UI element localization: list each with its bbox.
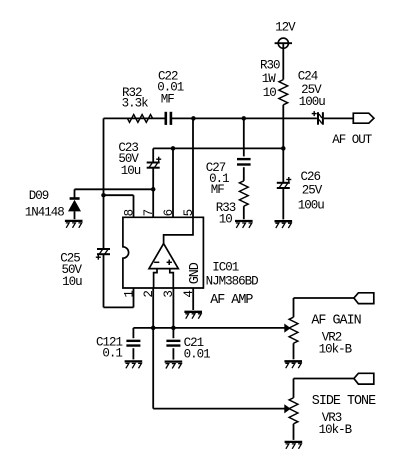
svg-text:100u: 100u [299,95,326,109]
svg-text:C26: C26 [301,170,321,184]
svg-text:SIDE TONE: SIDE TONE [312,394,376,409]
svg-text:MF: MF [211,183,225,197]
svg-text:6: 6 [162,209,176,216]
svg-text:25V: 25V [302,183,323,197]
svg-text:IC01: IC01 [212,261,239,275]
svg-text:1N4148: 1N4148 [25,205,65,219]
svg-text:GND: GND [188,262,203,284]
svg-text:3.3k: 3.3k [122,97,149,111]
svg-text:NJM386BD: NJM386BD [206,274,259,288]
svg-text:12V: 12V [275,21,296,35]
svg-text:10k-B: 10k-B [319,342,353,356]
svg-text:10: 10 [263,86,277,100]
svg-text:2: 2 [142,291,156,298]
svg-text:D09: D09 [29,189,49,203]
svg-text:AF OUT: AF OUT [332,133,373,147]
svg-text:1W: 1W [262,72,277,86]
svg-text:0.1: 0.1 [102,347,122,361]
svg-text:1: 1 [122,291,136,298]
svg-text:C24: C24 [298,69,318,83]
svg-text:10u: 10u [62,275,82,289]
svg-text:7: 7 [142,209,156,216]
svg-text:AF GAIN: AF GAIN [311,314,360,329]
svg-text:8: 8 [122,209,136,216]
svg-text:AF AMP: AF AMP [210,293,253,308]
svg-text:10k-B: 10k-B [319,423,353,437]
svg-text:10: 10 [219,212,233,226]
svg-text:3: 3 [162,291,176,298]
svg-text:0.01: 0.01 [184,347,211,361]
svg-text:MF: MF [161,93,175,107]
svg-text:R30: R30 [260,59,280,73]
svg-text:10u: 10u [121,164,141,178]
svg-text:5: 5 [182,209,196,216]
svg-text:100u: 100u [298,198,325,212]
svg-text:4: 4 [182,291,196,298]
